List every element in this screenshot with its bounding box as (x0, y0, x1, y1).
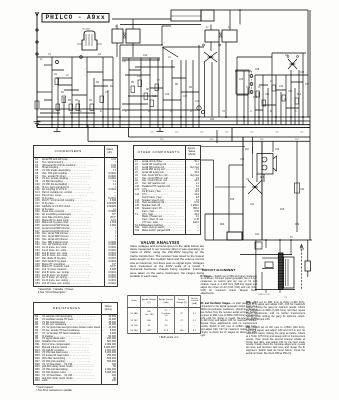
svg-text:C40: C40 (275, 149, 280, 151)
svg-text:R12: R12 (297, 94, 302, 96)
svg-text:C52: C52 (150, 132, 153, 134)
svg-text:L6: L6 (270, 81, 273, 83)
svg-text:C80: C80 (300, 249, 305, 251)
svg-text:C15: C15 (152, 96, 157, 98)
svg-text:R7: R7 (157, 80, 161, 82)
svg-text:V3: V3 (222, 111, 226, 113)
svg-text:C52: C52 (300, 132, 303, 134)
svg-text:R: R (190, 111, 192, 113)
svg-text:R9: R9 (189, 87, 193, 89)
svg-text:R18: R18 (280, 209, 285, 211)
svg-text:C33: C33 (300, 72, 305, 74)
svg-text:C39: C39 (240, 159, 245, 161)
svg-text:C14: C14 (143, 55, 148, 57)
svg-text:T2: T2 (290, 237, 293, 239)
svg-text:C42: C42 (300, 189, 305, 191)
svg-text:R30: R30 (260, 139, 263, 141)
svg-text:C35: C35 (288, 91, 293, 93)
svg-text:L8: L8 (228, 27, 231, 29)
svg-text:R30: R30 (160, 139, 163, 141)
svg-text:R30: R30 (295, 139, 298, 141)
svg-text:C6: C6 (89, 100, 93, 102)
svg-text:C13: C13 (137, 76, 142, 78)
svg-text:C28: C28 (255, 69, 260, 71)
svg-text:L4: L4 (115, 26, 118, 28)
svg-text:C29: C29 (253, 97, 258, 99)
svg-text:R22: R22 (295, 224, 300, 226)
svg-text:C32: C32 (279, 86, 284, 88)
svg-text:OSC-MIX: OSC-MIX (82, 29, 90, 31)
svg-text:C4: C4 (98, 54, 102, 56)
svg-text:C52: C52 (275, 132, 278, 134)
svg-text:C37: C37 (305, 84, 310, 86)
svg-text:L8: L8 (284, 99, 287, 101)
svg-text:C16: C16 (165, 94, 170, 96)
svg-text:C52: C52 (225, 132, 228, 134)
svg-text:C18: C18 (195, 101, 200, 103)
svg-text:R20: R20 (220, 224, 225, 226)
svg-text:C: C (125, 111, 127, 113)
svg-text:R1: R1 (61, 92, 65, 94)
svg-text:C31: C31 (265, 94, 270, 96)
svg-text:R5: R5 (131, 82, 135, 84)
svg-text:C: C (250, 111, 252, 113)
svg-text:C52: C52 (175, 132, 178, 134)
svg-text:C41: C41 (250, 204, 255, 206)
svg-text:C52: C52 (250, 132, 253, 134)
svg-text:C11: C11 (122, 61, 127, 63)
svg-text:SPEECH COIL: SPEECH COIL (258, 294, 270, 296)
svg-text:R10: R10 (210, 119, 215, 121)
svg-text:L7: L7 (206, 27, 209, 29)
svg-text:C52: C52 (200, 132, 203, 134)
svg-text:R6: R6 (146, 89, 150, 91)
svg-text:R2: R2 (68, 100, 72, 102)
svg-text:R17: R17 (245, 149, 250, 151)
svg-text:C21: C21 (255, 234, 260, 236)
svg-text:L13: L13 (284, 297, 287, 299)
svg-text:R15: R15 (260, 177, 265, 179)
svg-text:C2: C2 (54, 74, 58, 76)
svg-text:V1: V1 (168, 57, 172, 59)
svg-text:R8: R8 (175, 84, 179, 86)
svg-text:C26: C26 (246, 87, 251, 89)
svg-text:C: C (295, 111, 297, 113)
svg-text:C5: C5 (75, 100, 79, 102)
svg-text:R3: R3 (96, 82, 100, 84)
svg-text:R: R (100, 111, 102, 113)
svg-text:C17: C17 (183, 96, 188, 98)
svg-text:L2: L2 (66, 75, 69, 77)
svg-text:L1: L1 (40, 59, 43, 61)
svg-text:C25: C25 (239, 79, 244, 81)
svg-text:R30: R30 (210, 139, 213, 141)
svg-text:L5: L5 (258, 87, 261, 89)
svg-text:C1: C1 (48, 54, 52, 56)
svg-text:R16: R16 (230, 199, 235, 201)
